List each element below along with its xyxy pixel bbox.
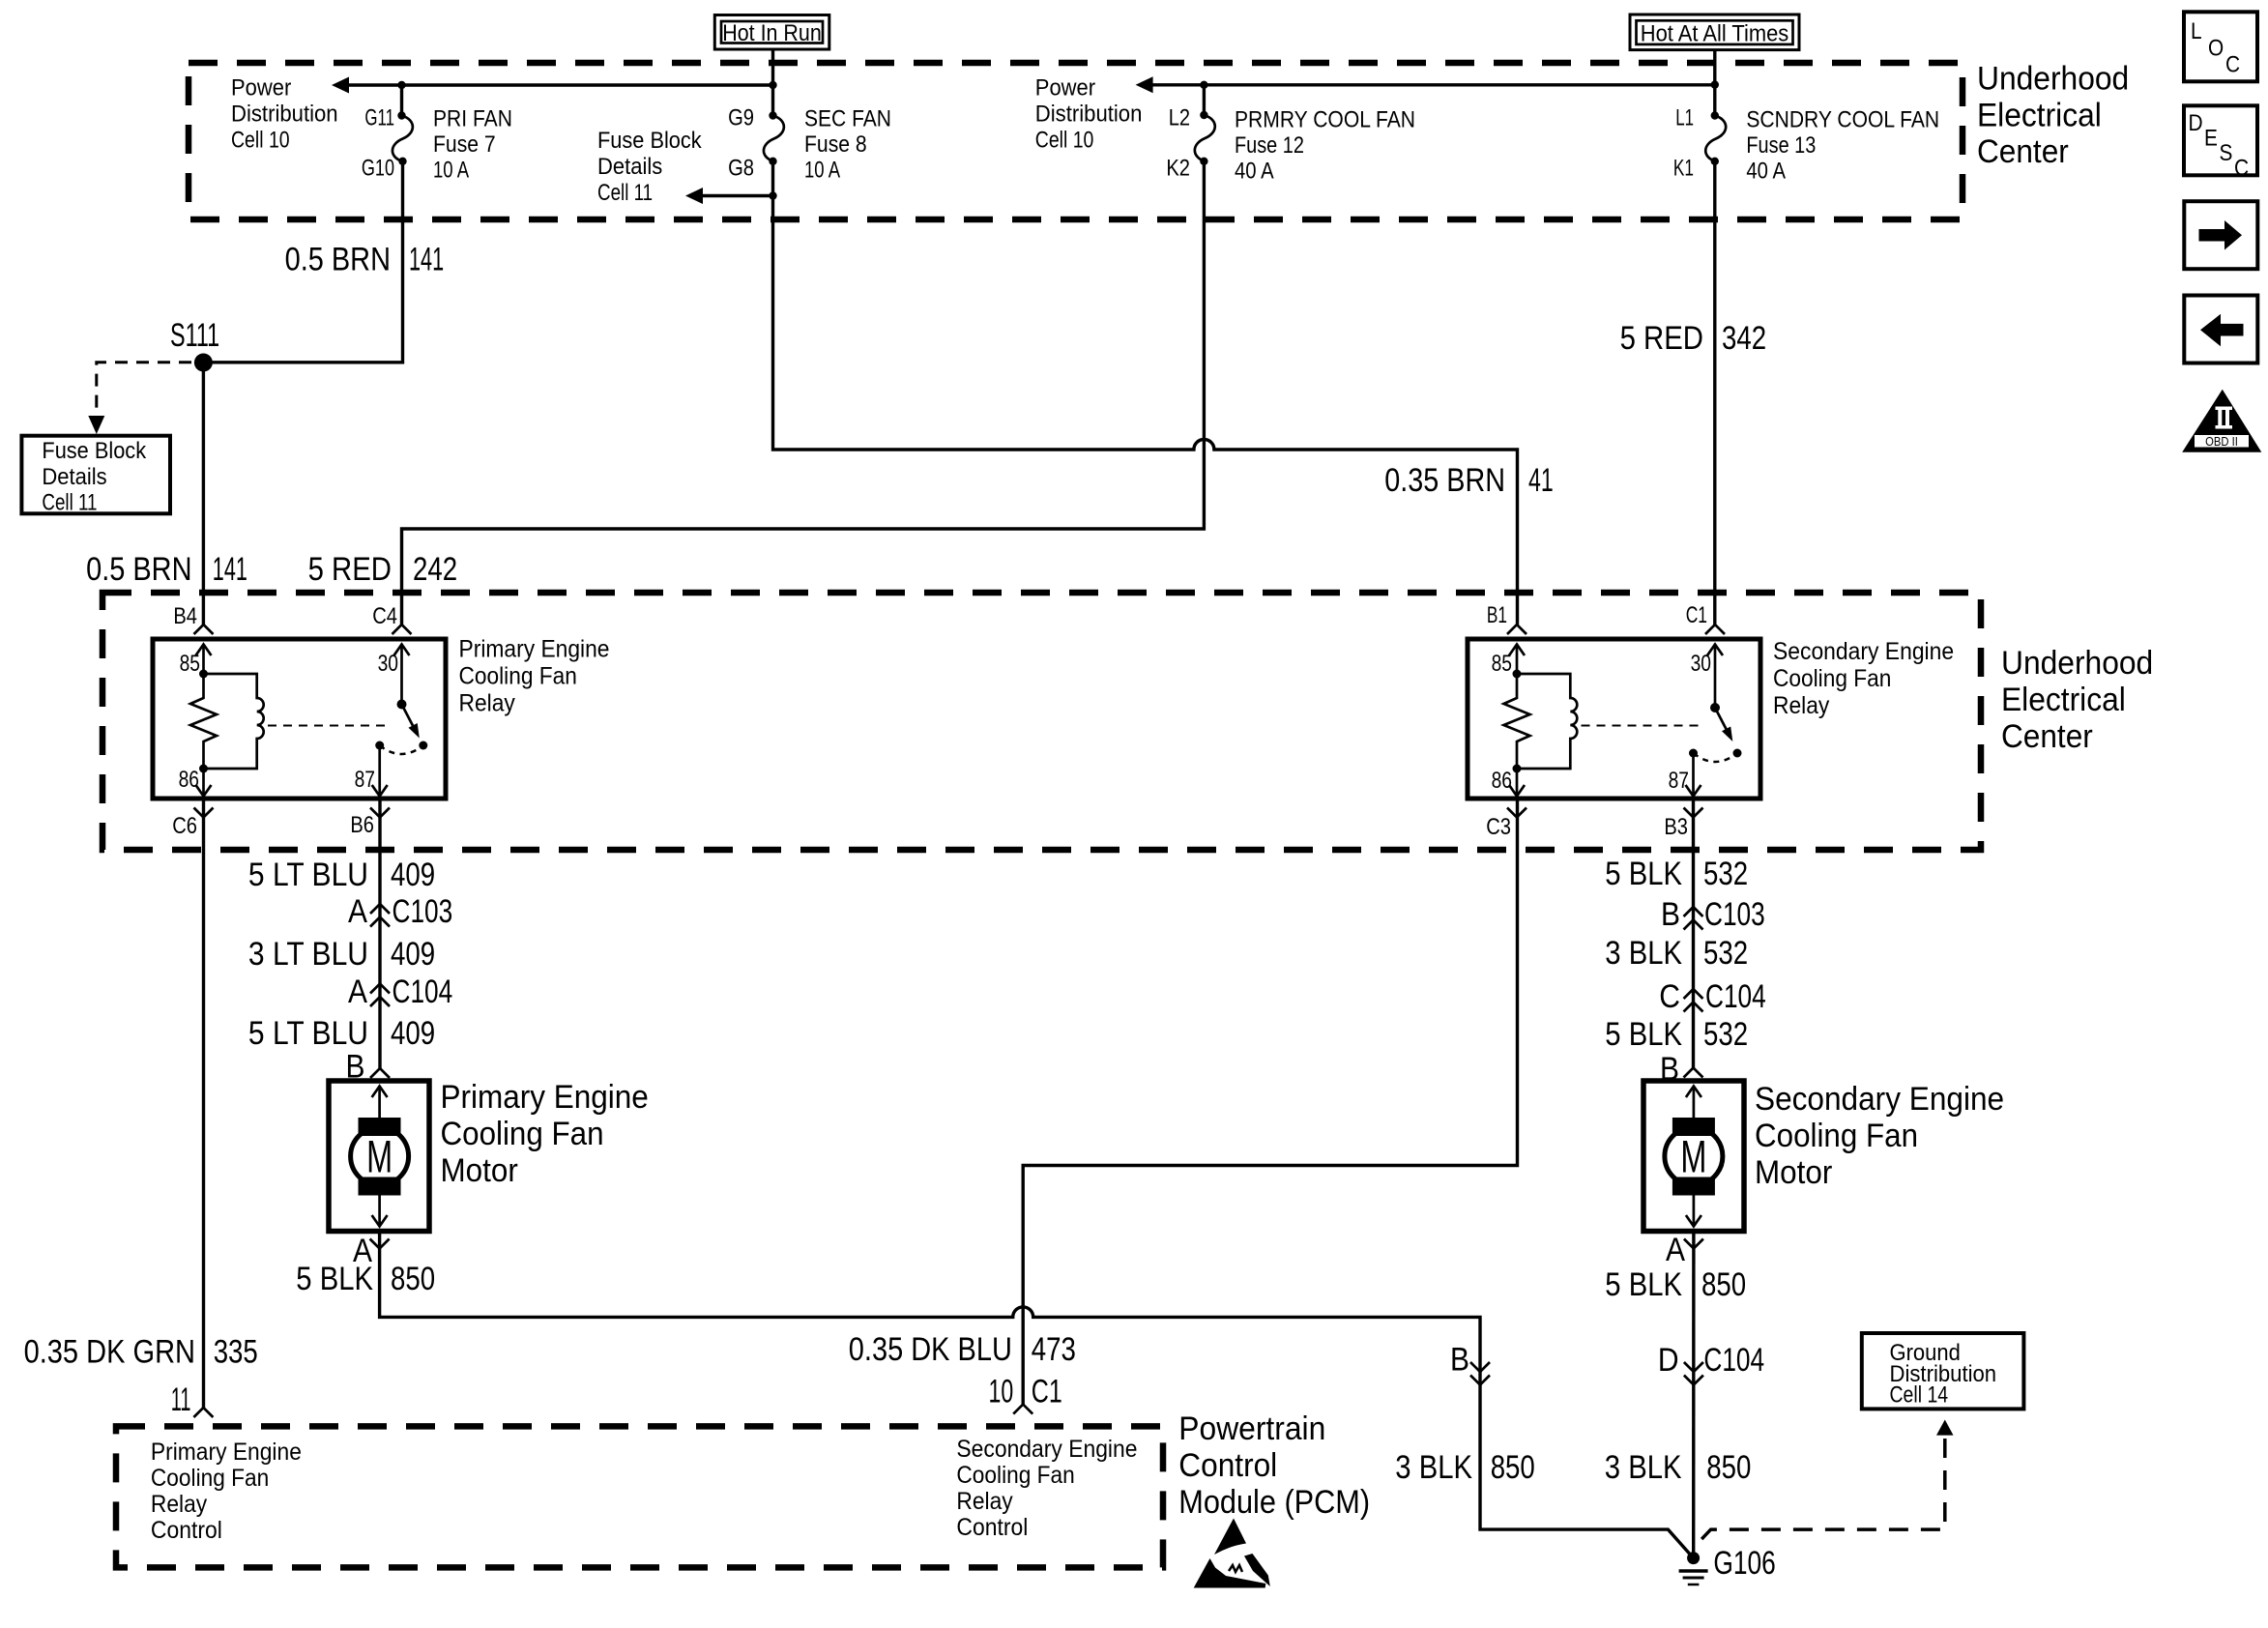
svg-text:Underhood: Underhood (2001, 645, 2153, 682)
svg-text:Cooling Fan: Cooling Fan (1755, 1118, 1918, 1154)
svg-text:40 A: 40 A (1235, 159, 1274, 185)
svg-text:Cell 14: Cell 14 (1890, 1382, 1949, 1409)
svg-text:Cooling Fan: Cooling Fan (459, 663, 577, 690)
svg-text:41: 41 (1528, 462, 1554, 499)
svg-text:A: A (348, 974, 367, 1010)
svg-text:30: 30 (1691, 651, 1711, 677)
svg-text:Hot At All Times: Hot At All Times (1641, 21, 1789, 47)
svg-text:85: 85 (1492, 651, 1512, 677)
svg-text:Primary Engine: Primary Engine (441, 1079, 649, 1116)
svg-text:A: A (348, 893, 367, 930)
svg-text:Motor: Motor (1755, 1154, 1832, 1191)
svg-text:342: 342 (1722, 320, 1766, 357)
svg-text:10: 10 (989, 1374, 1014, 1410)
svg-text:C3: C3 (1486, 814, 1511, 840)
svg-text:Primary Engine: Primary Engine (459, 636, 610, 663)
svg-text:Distribution: Distribution (231, 101, 338, 127)
svg-text:L1: L1 (1675, 105, 1694, 131)
svg-text:409: 409 (391, 1015, 435, 1052)
svg-text:532: 532 (1703, 856, 1748, 892)
svg-text:Center: Center (2001, 718, 2093, 755)
svg-text:532: 532 (1703, 935, 1748, 972)
svg-text:5 RED: 5 RED (1620, 320, 1703, 357)
svg-text:Control: Control (956, 1514, 1028, 1541)
svg-text:G10: G10 (362, 156, 394, 182)
svg-text:Relay: Relay (151, 1491, 208, 1518)
svg-text:Cooling Fan: Cooling Fan (151, 1465, 269, 1492)
svg-text:Fuse Block: Fuse Block (597, 128, 703, 154)
svg-text:850: 850 (1491, 1449, 1535, 1486)
svg-text:D: D (1658, 1342, 1679, 1379)
svg-text:0.5 BRN: 0.5 BRN (285, 242, 391, 278)
svg-text:S: S (2220, 140, 2233, 166)
svg-text:Secondary Engine: Secondary Engine (1773, 638, 1954, 665)
svg-text:B1: B1 (1487, 602, 1507, 628)
svg-text:409: 409 (391, 936, 435, 973)
svg-text:85: 85 (180, 651, 200, 677)
svg-text:C104: C104 (1703, 1342, 1764, 1379)
svg-text:Fuse Block: Fuse Block (42, 438, 147, 464)
svg-text:C4: C4 (372, 603, 397, 629)
svg-text:10 A: 10 A (433, 158, 469, 184)
svg-text:C104: C104 (1705, 978, 1766, 1015)
svg-text:40 A: 40 A (1746, 159, 1786, 185)
svg-text:M: M (366, 1131, 393, 1182)
svg-text:G11: G11 (364, 105, 394, 131)
svg-text:86: 86 (179, 767, 199, 793)
svg-text:850: 850 (391, 1261, 435, 1297)
svg-text:C: C (2225, 52, 2240, 78)
svg-text:86: 86 (1492, 768, 1512, 794)
svg-text:Cell 11: Cell 11 (42, 490, 97, 516)
svg-text:850: 850 (1701, 1266, 1746, 1303)
svg-text:C: C (2234, 156, 2249, 182)
svg-text:C: C (1659, 978, 1680, 1015)
svg-text:Relay: Relay (956, 1488, 1013, 1515)
svg-text:Motor: Motor (441, 1152, 518, 1189)
svg-text:5 BLK: 5 BLK (1605, 1266, 1682, 1303)
svg-text:B: B (1661, 896, 1680, 933)
svg-text:5 BLK: 5 BLK (1605, 856, 1682, 892)
svg-text:B4: B4 (173, 603, 197, 629)
svg-text:PRMRY COOL FAN: PRMRY COOL FAN (1235, 107, 1415, 133)
svg-text:Fuse 12: Fuse 12 (1235, 132, 1304, 159)
svg-text:Cooling Fan: Cooling Fan (1773, 665, 1891, 692)
svg-text:11: 11 (171, 1381, 191, 1418)
svg-text:B6: B6 (350, 812, 374, 838)
svg-text:0.35 DK BLU: 0.35 DK BLU (849, 1331, 1012, 1368)
svg-text:A: A (1666, 1232, 1685, 1268)
svg-text:473: 473 (1032, 1331, 1076, 1368)
svg-text:Powertrain: Powertrain (1178, 1410, 1325, 1447)
svg-text:Cell 10: Cell 10 (1035, 127, 1094, 153)
svg-text:PRI FAN: PRI FAN (433, 106, 512, 132)
svg-text:L: L (2191, 18, 2202, 44)
svg-text:C1: C1 (1686, 602, 1707, 628)
svg-text:Fuse 7: Fuse 7 (433, 131, 496, 158)
svg-text:Details: Details (597, 154, 662, 180)
svg-text:L2: L2 (1169, 105, 1190, 131)
svg-text:D: D (2189, 110, 2203, 136)
svg-text:E: E (2204, 126, 2218, 152)
svg-text:850: 850 (1706, 1449, 1751, 1486)
svg-text:0.35 DK GRN: 0.35 DK GRN (24, 1334, 195, 1371)
svg-text:Module (PCM): Module (PCM) (1178, 1484, 1370, 1521)
svg-text:532: 532 (1703, 1016, 1748, 1053)
svg-text:C6: C6 (172, 813, 197, 839)
svg-text:Power: Power (1035, 75, 1095, 102)
svg-text:5 LT BLU: 5 LT BLU (248, 1015, 368, 1052)
svg-text:Details: Details (42, 464, 106, 490)
svg-text:K2: K2 (1166, 156, 1190, 182)
svg-text:5 LT BLU: 5 LT BLU (248, 857, 368, 893)
svg-text:87: 87 (355, 767, 375, 793)
svg-text:Cell 10: Cell 10 (231, 127, 290, 153)
svg-text:G106: G106 (1713, 1545, 1775, 1582)
svg-text:3 BLK: 3 BLK (1605, 1449, 1682, 1486)
svg-text:Hot In Run: Hot In Run (722, 20, 822, 46)
svg-text:O: O (2208, 36, 2224, 62)
svg-text:C1: C1 (1032, 1374, 1062, 1410)
svg-text:Cooling Fan: Cooling Fan (441, 1116, 604, 1152)
svg-text:30: 30 (378, 651, 398, 677)
svg-text:Electrical: Electrical (2001, 682, 2126, 718)
svg-text:B: B (1450, 1342, 1469, 1379)
svg-text:Electrical: Electrical (1977, 97, 2102, 133)
svg-text:C103: C103 (393, 893, 453, 930)
svg-text:K1: K1 (1673, 156, 1694, 182)
svg-text:Relay: Relay (1773, 692, 1830, 719)
svg-text:141: 141 (409, 242, 444, 278)
svg-text:SEC FAN: SEC FAN (804, 106, 891, 132)
svg-text:OBD II: OBD II (2205, 434, 2238, 449)
svg-text:5 BLK: 5 BLK (296, 1261, 373, 1297)
svg-text:5 RED: 5 RED (308, 551, 392, 588)
svg-text:3 BLK: 3 BLK (1395, 1449, 1472, 1486)
svg-text:0.35 BRN: 0.35 BRN (1384, 462, 1505, 499)
svg-text:Control: Control (1178, 1447, 1277, 1484)
svg-text:Underhood: Underhood (1977, 61, 2129, 98)
svg-text:3 BLK: 3 BLK (1605, 935, 1682, 972)
svg-text:5 BLK: 5 BLK (1605, 1016, 1682, 1053)
svg-text:Power: Power (231, 75, 291, 102)
svg-text:3 LT BLU: 3 LT BLU (248, 936, 368, 973)
svg-text:G9: G9 (728, 105, 754, 131)
svg-text:0.5 BRN: 0.5 BRN (86, 551, 191, 588)
svg-text:Primary Engine: Primary Engine (151, 1439, 302, 1466)
svg-text:Secondary Engine: Secondary Engine (1755, 1081, 2004, 1118)
svg-text:Center: Center (1977, 133, 2069, 170)
svg-text:S111: S111 (170, 317, 219, 354)
svg-text:242: 242 (413, 551, 457, 588)
svg-text:Fuse 8: Fuse 8 (804, 131, 867, 158)
svg-text:Control: Control (151, 1517, 222, 1544)
svg-text:141: 141 (213, 551, 247, 588)
svg-text:409: 409 (391, 857, 435, 893)
svg-text:Distribution: Distribution (1035, 101, 1143, 127)
svg-text:C103: C103 (1704, 896, 1765, 933)
svg-text:335: 335 (214, 1334, 258, 1371)
svg-text:G8: G8 (728, 156, 754, 182)
svg-text:C104: C104 (393, 974, 453, 1010)
svg-text:Relay: Relay (459, 690, 516, 717)
svg-text:M: M (1680, 1131, 1706, 1182)
svg-text:Secondary Engine: Secondary Engine (956, 1436, 1137, 1463)
svg-text:Cooling Fan: Cooling Fan (956, 1462, 1074, 1489)
svg-text:B3: B3 (1664, 814, 1688, 840)
svg-text:Fuse 13: Fuse 13 (1746, 132, 1816, 159)
svg-text:10 A: 10 A (804, 158, 840, 184)
svg-text:SCNDRY COOL FAN: SCNDRY COOL FAN (1746, 107, 1939, 133)
svg-text:Cell 11: Cell 11 (597, 180, 653, 206)
svg-text:87: 87 (1669, 768, 1689, 794)
